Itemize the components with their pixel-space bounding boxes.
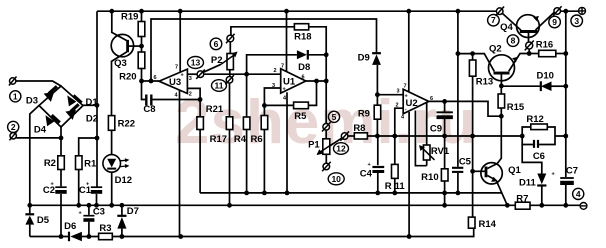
wire R16 left	[529, 53, 539, 55]
capacitor C2	[51, 182, 67, 194]
capacitor C6	[534, 140, 538, 148]
wire D9 to U2 pin3 node	[376, 65, 378, 95]
wire Q4 emitter to connector 9	[536, 13, 554, 30]
svg-text:R: R	[385, 181, 392, 192]
resistor R13	[469, 60, 476, 76]
wire C2 to lower bus	[60, 194, 62, 237]
wire U3 output to apex	[142, 80, 160, 82]
wire P2 wiper to connector 13	[203, 64, 221, 72]
svg-text:Q3: Q3	[114, 58, 127, 69]
potentiometer P2 arrow	[221, 55, 234, 64]
wire Q1 emitter to bus	[496, 180, 507, 205]
svg-text:R3: R3	[99, 223, 111, 234]
node 10 connector	[322, 162, 331, 171]
transistor Q3	[111, 34, 133, 56]
wire C9 top lead	[444, 101, 446, 111]
wire U2 pin7 to top rail	[408, 11, 410, 92]
svg-text:R10: R10	[421, 172, 438, 183]
wire lower bus with R14 riser	[30, 228, 474, 236]
wire C5 bottom to ground rail	[457, 173, 459, 193]
svg-text:R19: R19	[121, 12, 138, 23]
wire C4 bottom to ground rail	[377, 173, 379, 193]
op-amp U2	[396, 84, 434, 121]
wire P2 bottom to connector 11	[229, 70, 231, 77]
svg-text:R20: R20	[119, 72, 136, 83]
wire U3 pin3 to connector 13	[187, 73, 197, 75]
svg-text:6: 6	[214, 39, 219, 49]
svg-text:C4: C4	[360, 168, 373, 179]
wire R19 to R20	[141, 37, 143, 53]
svg-text:3: 3	[397, 89, 400, 95]
potentiometer P1 body	[323, 139, 330, 155]
svg-text:D2: D2	[86, 113, 98, 124]
svg-text:D6: D6	[64, 221, 76, 232]
wire top rail	[97, 10, 497, 12]
resistor R10	[441, 169, 448, 181]
wire RV1 bottom lead	[426, 160, 428, 166]
wire U3 pin2 to R21 top	[187, 88, 200, 99]
wire R22 to D12	[111, 130, 113, 154]
terminal 4 minus	[580, 203, 587, 210]
svg-text:C8: C8	[143, 104, 155, 115]
wire D10 to raw column	[552, 85, 566, 87]
wire ground rail	[200, 192, 502, 194]
wire U3 pin4 to lower bus	[179, 91, 181, 237]
wire upper bus	[30, 204, 581, 206]
svg-text:7: 7	[175, 65, 178, 71]
node 7 connector	[496, 7, 505, 16]
wire Q1 base	[473, 170, 485, 172]
resistor R4	[243, 117, 250, 130]
wire P2 top from connector 6	[229, 42, 231, 54]
diode D6	[70, 232, 82, 241]
svg-text:U2: U2	[406, 98, 418, 109]
diode D3	[44, 92, 55, 102]
wire C8 right to R21 node	[151, 99, 200, 101]
svg-text:13: 13	[191, 58, 201, 68]
diode D10	[541, 82, 552, 92]
svg-text:+: +	[79, 211, 82, 217]
svg-text:R18: R18	[294, 31, 311, 42]
wire U1 output	[306, 80, 326, 82]
wire R6 top lead	[263, 105, 265, 115]
wire R17 to upper bus	[229, 130, 231, 206]
svg-text:R21: R21	[206, 104, 224, 115]
svg-text:U3: U3	[169, 77, 181, 88]
op-amp U1	[272, 64, 306, 102]
wire D5 to lower bus	[29, 225, 31, 237]
svg-text:R6: R6	[251, 134, 263, 145]
wire R20 to U3 output node	[141, 69, 143, 82]
wire D11 top lead	[522, 145, 542, 174]
wire R13 top lead	[472, 54, 474, 60]
svg-text:+: +	[405, 94, 408, 100]
svg-text:D10: D10	[536, 71, 553, 82]
capacitor C4	[368, 162, 385, 173]
svg-text:D4: D4	[34, 125, 47, 136]
wire R12 C6 left node	[522, 127, 533, 145]
svg-text:+: +	[181, 73, 184, 79]
wire R10 to buses	[444, 181, 446, 205]
wire P1 wiper to connector 12	[318, 138, 343, 154]
node 9 connector	[553, 6, 562, 15]
node 1 connector	[9, 77, 17, 86]
svg-text:R2: R2	[44, 158, 56, 169]
node 11 connector	[225, 75, 234, 84]
connector circles with slash	[9, 6, 562, 171]
potentiometer P1 arrow	[320, 144, 333, 153]
resistor R15	[498, 94, 505, 108]
wire terminal 1 to bridge top	[16, 81, 61, 86]
wire D7 to lower bus	[121, 229, 123, 237]
wire D8 to feedback node	[309, 54, 327, 56]
transistor Q2	[489, 55, 518, 81]
wire R15 top lead	[500, 86, 502, 94]
wire bridge right corner to DC+ column	[83, 104, 97, 106]
svg-text:D3: D3	[26, 95, 38, 106]
svg-text:12: 12	[336, 144, 346, 154]
svg-text:R1: R1	[84, 159, 97, 170]
resistor R7	[515, 202, 530, 209]
wire bridge left corner down to D5	[30, 106, 39, 214]
resistor R2	[58, 156, 65, 170]
svg-text:R8: R8	[353, 123, 365, 134]
svg-text:7: 7	[491, 15, 496, 25]
svg-text:6: 6	[430, 96, 433, 102]
wire R18 left to connector 6	[231, 27, 295, 36]
wire C3 to lower bus	[88, 222, 90, 237]
bridge rectifier outline	[39, 86, 83, 127]
wire R1 to upper bus	[78, 170, 80, 206]
wire R16 right to raw column	[556, 53, 566, 55]
svg-text:C1: C1	[79, 185, 92, 196]
node 5 connector	[322, 122, 331, 131]
svg-text:+: +	[368, 162, 371, 168]
diode D5	[25, 216, 34, 225]
svg-text:10: 10	[331, 174, 341, 184]
svg-text:11: 11	[215, 81, 224, 91]
wire terminal 2 to bridge bottom column	[16, 137, 61, 139]
svg-text:D1: D1	[86, 97, 99, 108]
resistor R17	[226, 117, 233, 130]
wire R4 bottom to ground rail	[246, 130, 248, 193]
svg-text:C6: C6	[533, 151, 545, 162]
wire D11 bottom to upper bus	[541, 186, 543, 205]
svg-text:3: 3	[189, 76, 192, 82]
resistor R11	[392, 164, 399, 178]
svg-text:D12: D12	[115, 175, 132, 186]
terminal 3 plus	[579, 7, 586, 14]
svg-text:D9: D9	[358, 53, 370, 64]
wire R1 top to DC+ column	[79, 138, 97, 156]
svg-text:-: -	[405, 107, 407, 113]
capacitor C7	[552, 172, 574, 186]
node 2 connector	[9, 131, 17, 140]
svg-text:8: 8	[511, 36, 516, 46]
svg-text:C2: C2	[43, 185, 55, 196]
wire P1 to connector 10	[325, 154, 327, 163]
wire connector 12 to R8	[348, 135, 355, 137]
resistor R5	[294, 102, 309, 109]
resistor R8	[354, 133, 367, 139]
diode D11	[537, 174, 546, 185]
svg-text:2: 2	[396, 103, 399, 109]
wire feedback node to connector 5	[325, 55, 327, 124]
wire connector 11 to R17	[229, 83, 231, 117]
potentiometer P2 body	[227, 54, 233, 70]
wire RV1 top to U2 output	[426, 101, 428, 145]
svg-text:R17: R17	[210, 134, 227, 145]
svg-text:2: 2	[189, 92, 192, 98]
svg-text:+: +	[552, 172, 555, 178]
diode D9	[372, 54, 381, 65]
transistor Q4	[517, 15, 540, 38]
svg-text:2: 2	[11, 122, 16, 132]
svg-text:R12: R12	[526, 114, 543, 125]
wire connector 5 to P1	[325, 130, 327, 139]
wire Q2 base	[500, 75, 502, 86]
wire raw right column	[565, 11, 567, 177]
resistor R6	[261, 116, 268, 130]
svg-text:2: 2	[274, 68, 277, 74]
svg-text:R14: R14	[478, 219, 496, 230]
svg-text:R5: R5	[294, 111, 307, 122]
capacitor C1	[86, 182, 102, 194]
op-amp U3	[154, 65, 192, 99]
wire U2 pin2 to feedback bus	[395, 108, 403, 136]
wire connector 8 to R16 node	[528, 49, 530, 53]
resistor R21	[197, 117, 204, 130]
resistor R1	[76, 156, 83, 170]
svg-text:RV1: RV1	[431, 146, 450, 157]
wire R13 R14 column	[472, 136, 474, 217]
diode D1	[67, 95, 76, 106]
wire U2 pin5 to RV1 bottom	[415, 111, 426, 166]
wire U2 pin4 to lower bus	[408, 112, 410, 237]
svg-text:Q2: Q2	[489, 44, 502, 55]
svg-text:4: 4	[576, 189, 581, 199]
diode D2	[65, 110, 76, 120]
resistor R22	[108, 116, 114, 131]
capacitor C3	[79, 211, 95, 222]
resistor R12	[531, 124, 548, 130]
trimmer RV1 arrow	[422, 148, 434, 160]
wire Q3 base	[129, 45, 142, 47]
wire Q2 emitter to connector 8 node	[509, 54, 530, 72]
svg-text:D8: D8	[298, 62, 310, 73]
resistor R9	[374, 105, 381, 119]
svg-text:Q1: Q1	[508, 165, 521, 176]
wire R11 bottom to ground rail	[394, 178, 396, 193]
wire D12 to upper bus	[111, 172, 113, 205]
diode D7	[117, 217, 126, 229]
svg-text:R7: R7	[516, 194, 528, 205]
wire C1 to upper bus	[96, 194, 98, 205]
LED D12	[103, 155, 130, 173]
wire second rail U3 output to D9	[151, 19, 377, 81]
wire R5 left	[264, 104, 293, 106]
wire Q3 collector from rail	[112, 11, 127, 40]
resistor R3	[99, 233, 113, 239]
wire R13 bottom to feedback bus	[472, 76, 474, 136]
svg-text:C7: C7	[566, 166, 578, 177]
svg-text:6: 6	[154, 75, 157, 81]
wire C8 left leg	[142, 81, 147, 100]
wire R15 node down to Q1 collector	[497, 116, 501, 163]
wire U1 pin3 to R6 top	[264, 88, 280, 105]
svg-text:Q4: Q4	[500, 22, 513, 33]
wire C4 top lead	[377, 136, 379, 165]
wire C3 upper bus to cap	[88, 205, 90, 215]
wire R4 column to D8 line	[247, 55, 297, 117]
wire Q2 collector	[458, 54, 494, 72]
wire C7 to upper bus	[565, 185, 567, 205]
wire U1 pin7 to top rail	[286, 11, 288, 71]
wire U1 pin4 to ground rail	[286, 92, 288, 193]
wire R2 to C2	[60, 170, 62, 187]
svg-text:P1: P1	[308, 140, 320, 151]
capacitor C9	[437, 112, 453, 119]
svg-text:C9: C9	[430, 123, 442, 134]
wire R6 bottom to ground rail	[263, 130, 265, 193]
wire C5 column from top rail	[457, 11, 459, 167]
wire R9 top lead	[376, 95, 378, 106]
svg-text:1: 1	[13, 91, 18, 101]
wire R8 to feedback bus	[367, 135, 522, 137]
svg-text:P2: P2	[211, 55, 223, 66]
diode D8	[297, 50, 307, 59]
resistor R19	[138, 22, 145, 37]
svg-text:3: 3	[272, 83, 275, 89]
wire R21 bottom to ground rail	[199, 130, 201, 193]
svg-text:7: 7	[281, 64, 284, 70]
svg-text:R9: R9	[358, 108, 370, 119]
wire U2 pin3	[377, 94, 403, 96]
wire D7 upper bus to bar	[121, 205, 123, 215]
node 13 connector	[196, 70, 205, 79]
node 6 connector	[226, 34, 235, 43]
wire rail to R19	[141, 11, 143, 21]
svg-text:R15: R15	[507, 102, 525, 113]
svg-text:D5: D5	[37, 215, 50, 226]
svg-text:C3: C3	[93, 207, 105, 218]
svg-text:6: 6	[302, 75, 305, 81]
svg-text:C5: C5	[459, 157, 472, 168]
wire R12 C6 right node	[539, 127, 566, 145]
svg-text:R22: R22	[118, 119, 135, 130]
capacitor C5	[452, 168, 463, 172]
wire R9 bottom to R8 node	[376, 119, 378, 136]
node 8 connector	[525, 41, 534, 51]
svg-text:9: 9	[552, 17, 557, 27]
wire R18 right leg	[309, 27, 327, 55]
svg-text:D11: D11	[519, 178, 537, 189]
svg-text:D7: D7	[127, 206, 139, 217]
wire R15 bottom	[500, 108, 502, 116]
svg-text:+: +	[283, 87, 286, 93]
resistor R16	[539, 50, 556, 56]
resistor R20	[138, 52, 145, 69]
wire U2 output	[429, 101, 502, 116]
capacitor C8	[146, 95, 151, 106]
svg-text:5: 5	[332, 112, 337, 122]
wire R21 top lead	[199, 100, 201, 117]
diode D4	[46, 115, 55, 126]
wire connector 13 to R4 column and U1 pin2	[204, 73, 281, 75]
wire left DC+ column	[96, 11, 98, 187]
svg-text:R16: R16	[536, 40, 553, 51]
trimmer RV1 body	[423, 145, 430, 160]
svg-text:7: 7	[404, 84, 407, 90]
wire bridge bottom to R2 C2 column	[60, 127, 62, 156]
svg-text:3: 3	[574, 16, 579, 26]
node 12 connector	[340, 131, 349, 140]
wire Q2 base node to D10	[501, 85, 540, 87]
resistor R18	[294, 24, 308, 30]
svg-text:11: 11	[395, 181, 406, 192]
svg-text:R13: R13	[476, 77, 493, 88]
wire C9 to R10	[444, 119, 446, 169]
circled terminal numbers	[8, 14, 584, 199]
wire top rail right segment to terminal 3	[560, 10, 578, 12]
svg-text:R4: R4	[234, 134, 247, 145]
wire Q4 base to connector 8	[528, 33, 530, 42]
wire R11 top lead	[394, 136, 396, 164]
wire U3 pin7	[179, 11, 181, 72]
resistor R14	[468, 217, 475, 228]
wire Q3 emitter to R22	[112, 52, 127, 116]
wire R5 right to U1 output	[308, 81, 316, 105]
wire Q4 collector from connector 7	[503, 14, 522, 31]
transistor Q1	[481, 163, 502, 184]
